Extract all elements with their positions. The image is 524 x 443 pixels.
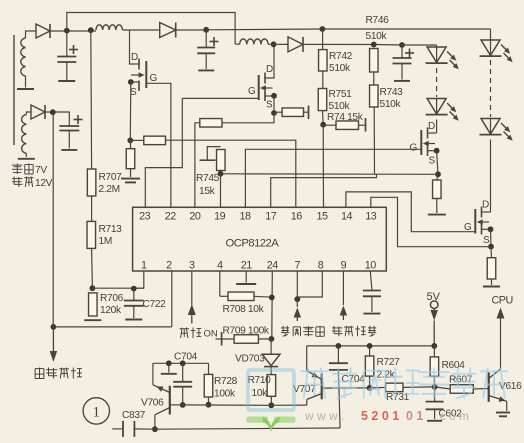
- wire: [322, 111, 325, 125]
- diode VD703: [235, 354, 280, 367]
- label R746: [366, 15, 390, 26]
- winding L3 (lower secondary): [18, 115, 35, 159]
- svg-text:C704: C704: [174, 352, 198, 363]
- svg-text:D: D: [428, 121, 435, 132]
- node Q4S: [488, 244, 494, 250]
- svg-text:C704: C704: [342, 374, 366, 385]
- wire: [208, 363, 210, 374]
- label 待机7V: [12, 164, 47, 177]
- node bus-R742: [320, 26, 326, 32]
- wire: [402, 44, 437, 46]
- wire pin7: [296, 271, 298, 299]
- svg-text:S: S: [429, 156, 436, 167]
- svg-text:G: G: [248, 86, 256, 97]
- wire R745 row: [221, 173, 439, 176]
- wire pin23 path: [145, 98, 182, 207]
- wire V1 gate to pin22: [146, 83, 171, 207]
- resistor R728: [204, 374, 237, 399]
- diode VD3: [31, 105, 45, 119]
- wire pin3 backlight: [188, 271, 196, 324]
- svg-text:R727: R727: [377, 357, 401, 368]
- node R709-pin24: [269, 336, 275, 342]
- wire: [373, 72, 375, 85]
- svg-text:9: 9: [341, 260, 347, 272]
- wire pin19: [220, 174, 222, 208]
- node R727 bottom: [367, 385, 373, 391]
- wire V707 base rail: [322, 387, 370, 389]
- watermark logo: [247, 417, 296, 432]
- ground Q4 source R: [483, 279, 500, 287]
- svg-text:C722: C722: [143, 299, 167, 310]
- svg-text:15: 15: [316, 211, 328, 223]
- svg-text:C837: C837: [122, 410, 146, 421]
- transistor V706: [153, 363, 183, 429]
- resistor R742: [319, 50, 353, 74]
- arrow mainboard supply: [50, 327, 58, 362]
- svg-text:13: 13: [365, 211, 377, 223]
- svg-text:1M: 1M: [99, 236, 112, 247]
- resistor R709: [216, 326, 272, 346]
- wire pin17 jog: [271, 174, 377, 207]
- wire: [490, 229, 493, 246]
- svg-text:G: G: [410, 143, 418, 154]
- svg-text:510k: 510k: [380, 99, 402, 110]
- svg-text:R707: R707: [99, 172, 123, 183]
- svg-text:22: 22: [165, 211, 177, 223]
- svg-text:R607: R607: [449, 375, 473, 386]
- label 510k: [366, 31, 388, 42]
- wire: [90, 30, 93, 169]
- wire pin2: [169, 271, 172, 327]
- svg-text:. c o m: . c o m: [433, 409, 469, 423]
- label D: [131, 52, 138, 63]
- svg-text:17: 17: [265, 211, 277, 223]
- resistor R743: [370, 85, 404, 110]
- resistor R (feedback): [144, 136, 166, 145]
- svg-text:ON: ON: [204, 329, 218, 340]
- node V706 collector: [152, 426, 158, 432]
- node C704 bottom: [180, 402, 186, 408]
- svg-text:4: 4: [217, 260, 223, 272]
- wire R743 down: [373, 107, 375, 174]
- transistor V3 (MOSFET): [421, 128, 436, 157]
- svg-text:D: D: [266, 64, 273, 75]
- wire: [437, 151, 438, 175]
- wire dashed: [490, 60, 492, 117]
- label S: [483, 235, 490, 246]
- node pin1-C722: [131, 286, 137, 292]
- wire pin4: [220, 271, 228, 296]
- wire: [254, 295, 272, 298]
- wire pin8: [297, 271, 322, 297]
- wire rail to pin2: [53, 326, 171, 328]
- label S: [429, 156, 436, 167]
- svg-text:D: D: [131, 52, 138, 63]
- transformer core line: [13, 35, 15, 145]
- svg-text:G: G: [150, 73, 158, 84]
- resistor R751: [318, 89, 352, 113]
- wire emitter rail: [153, 362, 209, 364]
- svg-text:2.2M: 2.2M: [99, 184, 120, 195]
- svg-text:24: 24: [267, 260, 279, 272]
- node Q3 source: [434, 148, 440, 154]
- label 5V: [427, 291, 441, 303]
- svg-text:CPU: CPU: [492, 295, 513, 307]
- wire dashed: [436, 68, 438, 97]
- arrow 5V: [430, 309, 438, 347]
- svg-text:10: 10: [365, 260, 377, 272]
- wire: [303, 43, 374, 45]
- wire top frame: [67, 13, 235, 45]
- wire pin1 rail: [92, 287, 144, 289]
- svg-text:R710: R710: [248, 375, 272, 386]
- svg-text:19: 19: [214, 211, 226, 223]
- resistor R74 (15k): [323, 118, 365, 132]
- wire bus R746 segment: [322, 28, 490, 30]
- svg-text:510k: 510k: [329, 63, 351, 74]
- svg-text:1: 1: [141, 260, 147, 272]
- node R604-C602: [432, 384, 438, 390]
- wire pin1: [134, 271, 144, 288]
- wire: [436, 120, 438, 134]
- ground R706: [84, 319, 101, 321]
- svg-text:0 1: 0 1: [406, 409, 423, 423]
- wire 12V rail: [52, 112, 54, 327]
- transistor V2 (MOSFET): [259, 44, 274, 101]
- diode VD4: [288, 37, 303, 52]
- wire: [91, 196, 93, 221]
- svg-text:18: 18: [239, 211, 251, 223]
- label C704: [174, 352, 198, 363]
- resistor R (V1 source): [126, 140, 135, 168]
- wire pin18 to Q3 gate: [245, 149, 421, 207]
- wire feedback to pin16: [166, 140, 296, 207]
- node R727 top: [367, 343, 373, 349]
- svg-text:120k: 120k: [100, 305, 122, 316]
- transistor V4 (MOSFET): [475, 207, 490, 235]
- node gnd tap: [166, 360, 172, 366]
- svg-text:OCP8122A: OCP8122A: [226, 238, 280, 250]
- wire: [374, 44, 402, 47]
- label D: [266, 64, 273, 75]
- resistor R (Q3 source): [433, 174, 442, 198]
- svg-text:1: 1: [93, 405, 101, 421]
- resistor R604: [430, 346, 465, 376]
- label V616: [499, 381, 522, 392]
- resistor R708: [223, 292, 265, 315]
- wire base rail: [183, 404, 272, 406]
- wire R74 node to pin15: [322, 125, 324, 208]
- label G: [248, 86, 256, 97]
- wire: [208, 397, 210, 405]
- node R713-R706: [90, 285, 96, 291]
- svg-text:16: 16: [291, 211, 303, 223]
- op-amp U1 OCP8122A body: [133, 207, 387, 271]
- svg-text:R743: R743: [380, 87, 404, 98]
- wire: [50, 30, 96, 32]
- resistor R706: [89, 293, 124, 316]
- label G: [150, 73, 158, 84]
- svg-text:8: 8: [318, 260, 324, 272]
- capacitor C5: [363, 291, 381, 314]
- label 背光ON: [180, 328, 218, 340]
- label D: [482, 200, 489, 211]
- wire pin14 to Q4 gate: [346, 192, 475, 232]
- svg-text:R604: R604: [442, 360, 466, 371]
- wire string2 top: [490, 29, 492, 40]
- label V706: [141, 398, 164, 409]
- node bus-C2: [203, 27, 209, 33]
- page number circled 1: [83, 398, 109, 424]
- resistor R710: [248, 375, 276, 399]
- capacitor C2 (electrolytic): [197, 30, 218, 70]
- transistor V616: [489, 316, 507, 412]
- capacitor C4 (electrolytic): [393, 45, 415, 81]
- transistor V707: [307, 371, 322, 406]
- resistor R746: [370, 49, 379, 73]
- svg-text:R708 10k: R708 10k: [223, 304, 265, 315]
- svg-text:R746: R746: [366, 15, 390, 26]
- svg-text:100k: 100k: [214, 389, 236, 400]
- node C704 top: [180, 360, 186, 366]
- node bus-R707: [88, 27, 94, 33]
- arrow CPU: [497, 308, 505, 319]
- capacitor C604: [329, 346, 365, 428]
- label G: [410, 143, 418, 154]
- wire: [220, 171, 222, 174]
- label 开机12V: [12, 177, 53, 190]
- capacitor C1 (electrolytic): [57, 31, 78, 81]
- node R710-base rail: [268, 402, 274, 408]
- diode VD2: [160, 23, 176, 38]
- ground V616 emitter: [496, 413, 510, 417]
- svg-text:R706: R706: [100, 293, 124, 304]
- node R708-pin24: [269, 295, 275, 301]
- svg-text:R751: R751: [329, 89, 353, 100]
- svg-text:R728: R728: [214, 376, 238, 387]
- transistor V1 (MOSFET): [130, 30, 147, 91]
- watermark url: [304, 409, 469, 423]
- wire bottom rail: [155, 428, 340, 429]
- node 5V rail: [431, 343, 437, 349]
- svg-text:7: 7: [295, 260, 301, 272]
- svg-text:23: 23: [139, 211, 151, 223]
- node mainboard: [51, 324, 57, 330]
- ground small: [161, 363, 177, 374]
- svg-text:2: 2: [166, 260, 172, 272]
- svg-text:V706: V706: [141, 398, 164, 409]
- arrow digital dim: [294, 299, 302, 321]
- label 数字调光: [281, 326, 324, 337]
- capacitor C3 (electrolytic): [59, 112, 82, 150]
- svg-text:510k: 510k: [366, 31, 388, 42]
- resistor R (pin20): [200, 119, 222, 128]
- resistor R727: [365, 346, 400, 388]
- wire pin21 ground: [236, 271, 256, 284]
- label 主板供电: [35, 368, 82, 379]
- wire: [91, 248, 94, 288]
- node V2S: [271, 110, 277, 116]
- svg-text:510k: 510k: [329, 101, 351, 112]
- node Q3S: [435, 171, 441, 177]
- label 模拟调光: [332, 326, 376, 337]
- resistor R (V2 source sense): [274, 106, 309, 120]
- node V1S: [127, 138, 133, 144]
- svg-text:S: S: [483, 235, 490, 246]
- wire: [436, 45, 438, 47]
- LED D3: [480, 40, 513, 62]
- wire: [26, 112, 31, 115]
- resistor R607: [435, 385, 474, 394]
- node R745: [218, 171, 224, 177]
- LED D2: [426, 99, 459, 121]
- wire: [176, 29, 206, 31]
- trimmer tap symbol: [200, 147, 221, 161]
- svg-text:20: 20: [189, 211, 201, 223]
- label R607: [449, 375, 473, 386]
- LED D4: [480, 119, 513, 141]
- capacitor C837: [112, 410, 155, 437]
- wire V1 source down: [129, 82, 132, 140]
- ground V1 source R: [121, 169, 140, 183]
- wire: [270, 367, 272, 375]
- wire: [130, 139, 144, 141]
- resistor R745: [196, 150, 225, 198]
- resistor R707: [87, 169, 122, 196]
- inductor L4: [235, 39, 268, 44]
- wire: [322, 29, 324, 50]
- diode VD1: [36, 24, 50, 38]
- node bus-cap1: [64, 28, 70, 34]
- wire: [45, 111, 70, 113]
- label CPU: [492, 295, 513, 307]
- node 12V-cap: [50, 109, 56, 115]
- wire: [270, 339, 272, 354]
- wire: [26, 31, 37, 38]
- svg-text:10k: 10k: [252, 388, 269, 399]
- wire bus to R742 column: [206, 28, 322, 31]
- wire pin10: [370, 271, 372, 290]
- svg-text:12V: 12V: [35, 178, 53, 189]
- wire V2S to pin20 resistor: [222, 113, 274, 123]
- svg-text:VD703: VD703: [235, 354, 265, 365]
- wire pin13 to Q4 source: [371, 197, 491, 246]
- wire pin9 analog: [340, 271, 348, 320]
- ground Q3 source R: [428, 199, 446, 215]
- svg-text:5 2 0 1: 5 2 0 1: [361, 409, 399, 423]
- watermark 家电维修资料网: [248, 368, 508, 411]
- wire: [268, 43, 288, 45]
- svg-text:w w w .: w w w .: [304, 409, 344, 423]
- wire V2 gate to pin23 riser: [182, 97, 258, 99]
- svg-text:R709 100k: R709 100k: [223, 326, 270, 337]
- svg-text:7V: 7V: [35, 165, 47, 176]
- node Q4 source: [488, 226, 494, 232]
- wire: [403, 386, 434, 389]
- svg-text:R745: R745: [196, 173, 220, 184]
- wire rail 346: [307, 345, 435, 347]
- label D: [428, 121, 435, 132]
- wire: [306, 346, 308, 371]
- node R728 bottom: [206, 402, 212, 408]
- label S: [266, 100, 273, 111]
- label V707: [293, 384, 316, 395]
- label R74 15k: [327, 112, 364, 123]
- svg-text:14: 14: [341, 211, 353, 223]
- node V1 source: [128, 79, 134, 85]
- svg-text:21: 21: [241, 260, 253, 272]
- svg-text:S: S: [266, 100, 273, 111]
- wire: [490, 140, 492, 213]
- label S: [130, 87, 137, 98]
- wire: [270, 396, 272, 405]
- label G: [464, 222, 472, 233]
- capacitor C704: [173, 363, 192, 405]
- node L4-VD4: [271, 41, 277, 47]
- capacitor C722: [124, 289, 166, 320]
- node V2 source: [271, 93, 277, 99]
- svg-text:R742: R742: [329, 51, 353, 62]
- node R746 top: [371, 42, 377, 48]
- pin numbers bottom row: [141, 260, 376, 272]
- capacitor C602: [426, 387, 463, 421]
- node pin7-8: [294, 296, 300, 302]
- node R751-R74: [320, 122, 326, 128]
- terminal 5V: [430, 301, 438, 309]
- resistor R731: [370, 383, 410, 403]
- node C604 top: [336, 343, 342, 349]
- wire: [122, 29, 159, 31]
- wire: [322, 71, 324, 89]
- LED D1: [426, 47, 459, 69]
- wire: [433, 376, 435, 387]
- svg-text:R713: R713: [99, 224, 123, 235]
- pin numbers top row: [139, 211, 377, 223]
- resistor R713: [87, 221, 122, 248]
- wire pin24 column: [271, 271, 274, 339]
- wire: [271, 404, 307, 406]
- wire V2 source down: [273, 96, 275, 113]
- wire: [473, 388, 488, 391]
- svg-text:D: D: [482, 200, 489, 211]
- winding L1 (upper secondary): [17, 38, 34, 89]
- svg-text:3: 3: [189, 260, 195, 272]
- label OCP8122A: [226, 238, 280, 250]
- wire: [195, 123, 200, 208]
- node cap C4: [399, 42, 405, 48]
- resistor R (Q4 source): [487, 247, 496, 279]
- inductor L2: [96, 25, 122, 30]
- svg-text:15k: 15k: [199, 186, 216, 197]
